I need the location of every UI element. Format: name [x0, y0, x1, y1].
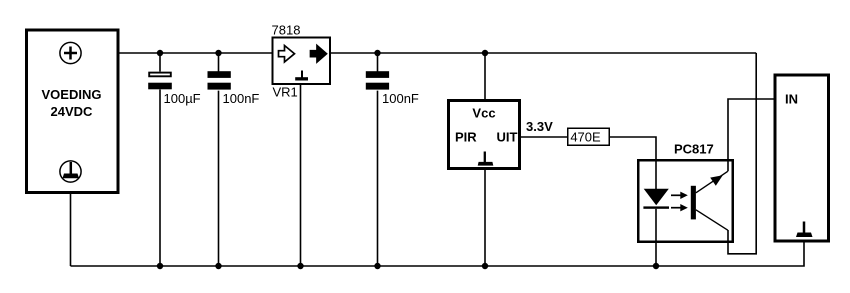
earth terminal symbol — [60, 161, 81, 182]
junction dot bottom rail LED cathode — [653, 263, 659, 269]
svg-text:470E: 470E — [570, 130, 601, 145]
wire from earth terminal down — [70, 192, 72, 266]
junction dot bottom rail C3 — [374, 263, 380, 269]
wire top rail right segment — [331, 52, 757, 54]
wire optocoupler upper lead to IN box — [728, 99, 775, 171]
svg-text:VR1: VR1 — [273, 85, 298, 100]
phototransistor upper lead with arrow — [696, 171, 728, 193]
wire resistor to optocoupler LED — [610, 137, 657, 160]
light coupling arrow upper — [671, 192, 688, 199]
junction dot top rail C2 — [215, 50, 221, 56]
wire optocoupler lower lead to top rail — [728, 53, 756, 254]
phototransistor lower lead — [696, 210, 728, 230]
wire PIR UIT to resistor — [521, 136, 568, 138]
svg-text:100µF: 100µF — [164, 91, 201, 106]
svg-text:PIR: PIR — [455, 130, 477, 145]
PIR sensor module box — [449, 101, 520, 169]
svg-text:PC817: PC817 — [674, 142, 714, 157]
svg-text:24VDC: 24VDC — [51, 104, 94, 119]
optocoupler U1 PC817 box — [638, 160, 733, 242]
junction dot bottom rail VR1 — [297, 263, 303, 269]
IN box internal ground symbol — [796, 222, 813, 238]
wire PIR Vcc drop — [484, 53, 486, 100]
svg-text:UIT: UIT — [497, 130, 518, 145]
svg-text:7818: 7818 — [272, 23, 301, 38]
light coupling arrow lower — [671, 204, 688, 211]
junction dot top rail PIR Vcc — [482, 50, 488, 56]
phototransistor base bar — [691, 186, 696, 220]
svg-text:VOEDING: VOEDING — [42, 87, 102, 102]
input module box IN — [775, 75, 829, 241]
wire bottom ground rail — [71, 241, 805, 266]
voltage regulator VR1 7818 box — [273, 38, 331, 85]
capacitor C2 100nF — [208, 53, 231, 266]
wire VR1 ground down — [300, 85, 302, 266]
junction dot bottom rail PIR — [482, 263, 488, 269]
power source B1 box VOEDING 24VDC — [27, 30, 119, 193]
resistor R1 470E — [568, 128, 610, 145]
wire top rail left segment — [117, 52, 272, 54]
junction dot bottom rail C2 — [215, 263, 221, 269]
svg-text:100nF: 100nF — [223, 91, 260, 106]
PIR internal ground symbol — [478, 152, 494, 166]
svg-text:3.3V: 3.3V — [526, 119, 553, 134]
regulator output solid arrow — [311, 46, 327, 63]
svg-text:100nF: 100nF — [382, 91, 419, 106]
wire PIR ground down — [484, 170, 486, 267]
regulator input hollow arrow — [279, 46, 295, 63]
svg-text:IN: IN — [785, 92, 798, 107]
positive terminal symbol — [60, 42, 81, 63]
LED inside optocoupler — [643, 159, 669, 266]
svg-text:Vcc: Vcc — [472, 106, 495, 121]
junction dot top rail C3 — [374, 50, 380, 56]
capacitor C1 100µF electrolytic — [148, 53, 172, 266]
junction dot bottom rail C1 — [157, 263, 163, 269]
regulator internal ground symbol — [295, 71, 308, 81]
junction dot top rail C1 — [157, 50, 163, 56]
capacitor C3 100nF — [366, 53, 389, 266]
